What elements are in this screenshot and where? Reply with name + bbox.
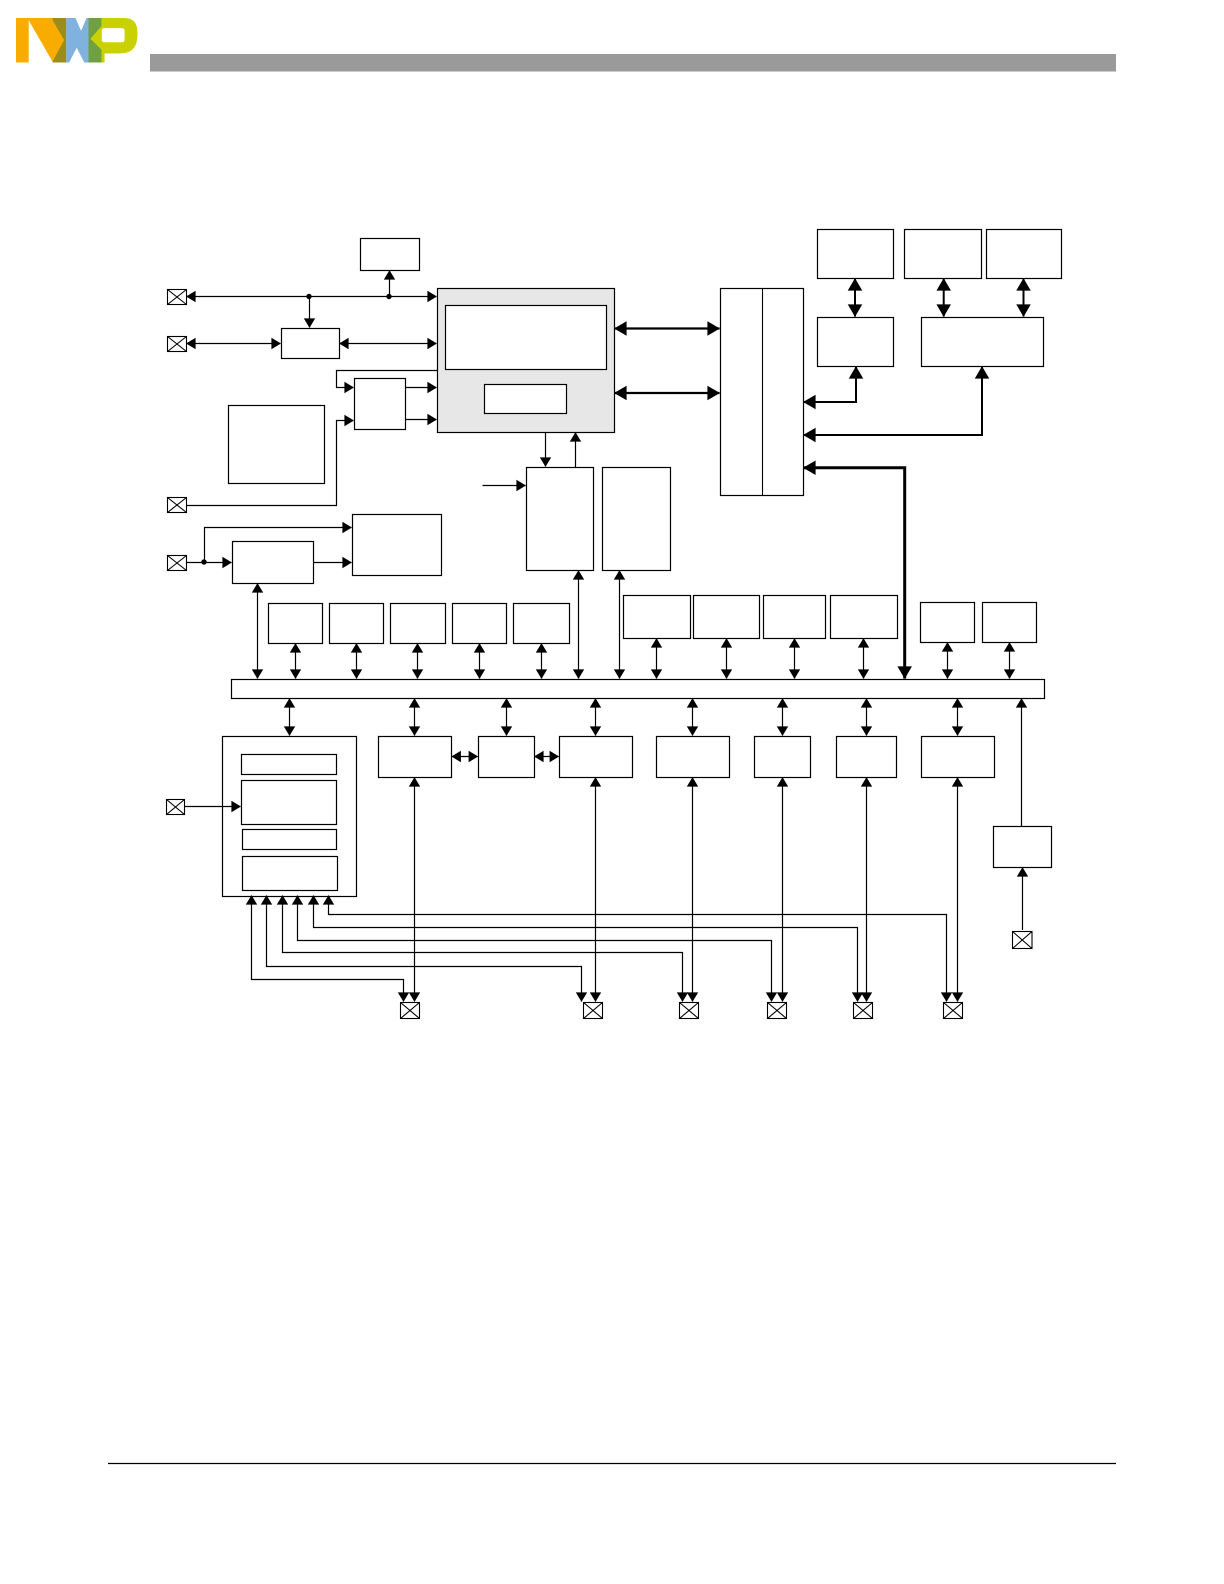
wire n5 to bus [782, 699, 784, 736]
wire block E to bus [578, 571, 580, 679]
peripheral bus [232, 680, 1045, 699]
CPU inner sub box [485, 385, 567, 414]
wire b8 to bus [794, 639, 796, 679]
wire n-block to port pad 6 [957, 778, 959, 1002]
wire pad-clkin to block P [1022, 868, 1024, 931]
block J (flash ctl) [818, 318, 894, 367]
block A (osc) [361, 239, 420, 271]
wire b4 to bus [479, 644, 481, 679]
wire n-block to port pad 4 [782, 778, 784, 1002]
wire block F to bus [619, 571, 621, 679]
block n3 [560, 737, 633, 778]
wire n4 to bus [692, 699, 694, 736]
wire b6 to bus [656, 639, 658, 679]
port pad 2 [584, 1003, 603, 1019]
wire b11 to bus [1009, 643, 1011, 679]
header gray bar [150, 54, 1116, 72]
wire n2 to n3 [535, 756, 559, 758]
block n4 [657, 737, 730, 778]
wire crossbar feedback to bus [804, 468, 905, 679]
block b1 [269, 604, 323, 644]
pad IRQ [167, 800, 185, 815]
block M sub1 [242, 755, 337, 775]
arrow CPU-crossbar upper [615, 327, 720, 329]
block M (port io) [223, 737, 357, 897]
block T (crossbar) [721, 289, 804, 496]
arrow G-J [854, 279, 856, 317]
wire n-block to port pad 2 [595, 778, 597, 1002]
junction on RESET wire [201, 559, 206, 564]
block F (flash col) [603, 468, 671, 571]
block b7 [694, 596, 760, 639]
wire junction up to block R [205, 528, 352, 563]
junction on EXTAL wire at A [386, 294, 391, 299]
wire b7 to bus [726, 639, 728, 679]
block M sub3 [243, 830, 337, 850]
block b9 [831, 596, 898, 639]
block I (ram) [987, 230, 1062, 279]
wire block C to CPU lower [405, 419, 437, 421]
wire crossbar to block J [804, 367, 857, 403]
block n2 [479, 737, 535, 778]
wire port fan 1 [252, 896, 404, 1002]
block B (xosc) [282, 329, 340, 359]
block b5 [514, 604, 570, 644]
block Q (COP) [233, 542, 314, 584]
arrow CPU-crossbar lower [615, 392, 720, 394]
wire n-block to port pad 3 [692, 778, 694, 1002]
block CPU (gray) [438, 289, 615, 433]
block n6 [837, 737, 897, 778]
wire port fan 2 [267, 896, 582, 1002]
wire b1 to bus [295, 644, 297, 679]
block n5 [755, 737, 811, 778]
wire block Q to bus [257, 584, 259, 679]
block b8 [764, 596, 826, 639]
block D (standalone) [229, 406, 325, 484]
wire port fan 5 [314, 896, 858, 1002]
arrow H-K [943, 279, 945, 317]
wire block P to bus [1021, 699, 1023, 827]
wire block E up to CPU [575, 433, 577, 468]
wire CPU down to block E [545, 432, 547, 467]
footer rule [108, 1463, 1116, 1465]
CPU inner core box [446, 306, 607, 370]
pad RESET [168, 556, 187, 571]
wire n2 to bus [506, 699, 508, 736]
wire n1 to n2 [452, 756, 478, 758]
block G (flash a) [818, 230, 894, 279]
wire block Q to block R [313, 562, 352, 564]
wire n-block to port pad 1 [414, 778, 416, 1002]
wire n3 to bus [595, 699, 597, 736]
block K (mem ctl) [922, 318, 1044, 367]
block n7 [922, 737, 995, 778]
wire n-block to port pad 5 [866, 778, 868, 1002]
block n1 [379, 737, 452, 778]
wire n6 to bus [866, 699, 868, 736]
wire crossbar to block K [804, 367, 983, 436]
wire port fan 3 [283, 896, 683, 1002]
wire pad-RESET to block Q [186, 562, 232, 564]
wire n7 to bus [957, 699, 959, 736]
block b11 [983, 603, 1037, 643]
arrow I-K [1023, 279, 1025, 317]
wire b9 to bus [863, 639, 865, 679]
port pad 1 [401, 1003, 420, 1019]
wire junction down to block B [309, 297, 311, 328]
block R (resets) [353, 515, 442, 576]
block H (flash b) [905, 230, 982, 279]
wire b3 to bus [417, 644, 419, 679]
wire pad-IRQ to block M sub2 [184, 806, 241, 808]
block b6 [624, 596, 691, 639]
block b3 [391, 604, 446, 644]
wire b2 to bus [356, 644, 358, 679]
port pad 4 [768, 1003, 787, 1019]
port pad 6 [944, 1003, 963, 1019]
block E (ram col) [527, 468, 594, 571]
wire port fan 6 [329, 896, 947, 1002]
block b2 [330, 604, 384, 644]
wire junction up to block A [389, 271, 391, 297]
wire CPU to block C upper [337, 371, 438, 388]
block b10 [921, 603, 975, 643]
block b4 [453, 604, 507, 644]
block M sub2 [242, 781, 337, 825]
wire interrupt into block E [483, 485, 526, 487]
wire n1 to bus [414, 699, 416, 736]
wire port fan 4 [298, 896, 772, 1002]
wire block B to CPU [340, 343, 437, 345]
junction on EXTAL wire at B [306, 294, 311, 299]
wire block M to bus [289, 699, 291, 736]
pad EXTAL [168, 290, 187, 305]
wire b10 to bus [947, 643, 949, 679]
wire pad-EXTAL to CPU [187, 296, 437, 298]
port pad 5 [854, 1003, 873, 1019]
NXP logo [16, 18, 138, 63]
port pad 3 [680, 1003, 699, 1019]
pad clkin [1013, 932, 1033, 949]
block M sub4 [243, 857, 338, 891]
wire pad-XTAL to block B [187, 343, 281, 345]
block P (rtc) [994, 827, 1052, 868]
pad XTAL [168, 337, 187, 352]
wire pad-BKGD to block C lower [187, 421, 354, 506]
pad BKGD [168, 498, 187, 513]
crossbar divider [762, 288, 764, 495]
block C (BDC) [355, 379, 406, 430]
wire b5 to bus [541, 644, 543, 679]
wire block C to CPU upper [405, 387, 437, 389]
